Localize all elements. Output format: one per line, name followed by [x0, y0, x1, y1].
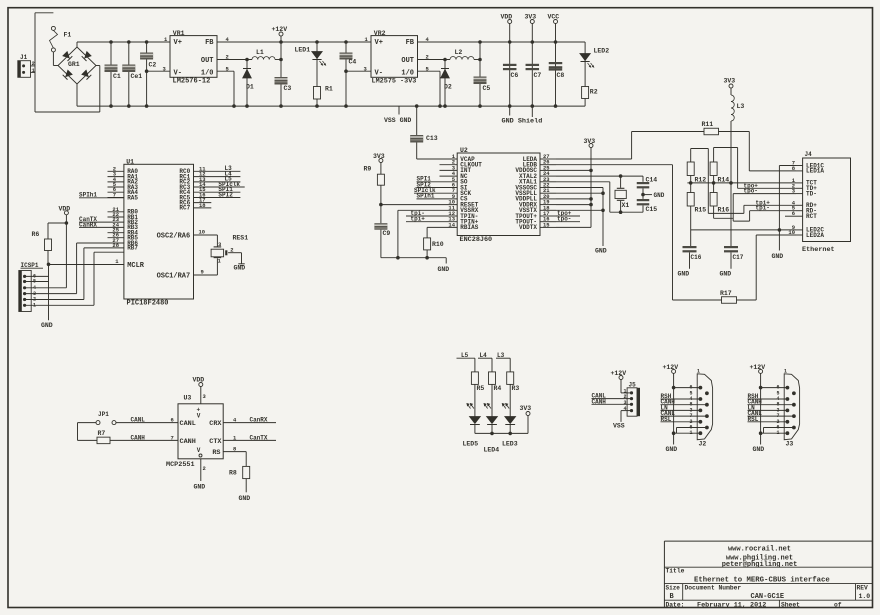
svg-text:GND: GND	[753, 446, 765, 453]
net label tpo+ at J4	[738, 182, 796, 189]
svg-text:C1: C1	[113, 73, 121, 80]
resistor R6	[32, 223, 67, 264]
power node VDD	[501, 14, 513, 106]
svg-text:LED1A: LED1A	[806, 168, 824, 175]
wire J4 LED1C to gnd	[779, 166, 796, 251]
resistor R4	[489, 372, 502, 417]
net label CANL at J2	[661, 410, 707, 417]
svg-text:C4: C4	[349, 59, 357, 66]
svg-text:GND: GND	[239, 495, 251, 502]
wire R9 to RESET	[379, 185, 457, 223]
svg-text:Ce1: Ce1	[131, 73, 143, 80]
net label CANH at J2	[661, 399, 707, 406]
net label SPIh1 at U1	[79, 192, 124, 199]
svg-text:RBIAS: RBIAS	[460, 224, 478, 231]
svg-text:R11: R11	[702, 121, 714, 128]
svg-text:CANH: CANH	[131, 434, 146, 441]
net label L3 wire	[496, 352, 510, 372]
net label tpo- at J4	[733, 188, 796, 195]
capacitor C13	[410, 106, 457, 159]
inductor L2	[450, 49, 474, 60]
svg-text:V: V	[197, 413, 201, 420]
power node 3V3 at LEDs	[520, 405, 532, 416]
wire J5 pin4 to VSS	[613, 411, 632, 430]
svg-text:www.rocrail.net: www.rocrail.net	[728, 546, 791, 554]
svg-text:J1: J1	[20, 54, 28, 61]
net label CanTX at U3	[223, 434, 276, 441]
power node 3V3 at R9	[373, 153, 385, 174]
svg-text:2: 2	[203, 465, 206, 472]
resistor R14	[710, 148, 729, 193]
connector ICSP1	[19, 262, 43, 312]
svg-text:2: 2	[226, 54, 229, 61]
capacitor C7	[526, 64, 542, 79]
wire +12V to J2 pin	[672, 386, 701, 390]
svg-text:C14: C14	[646, 177, 658, 184]
ground at RES1	[234, 264, 246, 272]
capacitor C16	[678, 246, 702, 278]
capacitor C14	[637, 176, 658, 188]
svg-text:10: 10	[199, 229, 206, 236]
svg-text:J2: J2	[699, 441, 707, 448]
svg-text:R12: R12	[695, 177, 707, 184]
svg-text:RS: RS	[212, 449, 220, 457]
svg-text:VSS GND: VSS GND	[384, 117, 411, 124]
svg-text:4: 4	[624, 406, 627, 412]
wire input loop	[35, 13, 100, 112]
net label tpi+ at U2	[406, 216, 457, 223]
wire ICSP1 pin4 to VDD	[25, 215, 67, 288]
wire TCT center tap line	[687, 181, 796, 185]
svg-text:R16: R16	[718, 207, 730, 214]
svg-text:LM2576-12: LM2576-12	[173, 78, 211, 86]
svg-text:OSC2/RA6: OSC2/RA6	[157, 232, 191, 240]
svg-text:CanRX: CanRX	[250, 417, 268, 424]
svg-text:CTX: CTX	[209, 438, 222, 446]
power node +12V at J2	[663, 364, 679, 433]
svg-text:V+: V+	[174, 39, 182, 47]
net label RSH at J3	[748, 393, 788, 400]
ground at J4 LEDs	[772, 253, 784, 260]
U1 RA pin stubs	[108, 165, 124, 198]
net label CANL at J5	[592, 393, 632, 400]
svg-text:1.0: 1.0	[859, 593, 871, 600]
svg-text:R2: R2	[590, 89, 598, 96]
IC U3 MCP2551	[166, 394, 223, 469]
IC U2 ENC28J60	[457, 147, 540, 244]
svg-text:REV: REV	[857, 585, 869, 592]
svg-text:OUT: OUT	[201, 57, 214, 65]
ground wire under U2	[381, 256, 449, 273]
junction dots ICSP area	[47, 221, 68, 266]
net label SPI2 at U2	[417, 181, 458, 188]
wire J1 pins to loop	[31, 66, 36, 73]
U2 left pin stubs	[440, 153, 458, 228]
net label L4 wire	[478, 352, 492, 372]
wire LEDA to R11	[556, 132, 704, 160]
wire VR2 FB to 3V3 rail	[418, 36, 586, 43]
svg-text:R3: R3	[512, 385, 520, 392]
power 3V3 vertical at U2 right	[556, 138, 595, 227]
svg-text:VDD: VDD	[193, 377, 205, 384]
svg-text:GND: GND	[438, 266, 450, 273]
svg-text:MCLR: MCLR	[127, 262, 145, 270]
svg-text:X1: X1	[622, 202, 630, 209]
svg-text:F1: F1	[64, 32, 72, 39]
resistor R11	[702, 121, 719, 135]
net label tpi- at J4	[750, 205, 796, 212]
svg-text:MCP2551: MCP2551	[166, 461, 195, 469]
capacitor C15	[637, 199, 658, 213]
svg-text:VDDTX: VDDTX	[519, 224, 537, 231]
svg-text:GND: GND	[595, 248, 607, 255]
svg-text:R1: R1	[325, 86, 333, 93]
power node +12V	[272, 26, 288, 60]
net label RSL at J2	[661, 416, 701, 423]
jumper JP1	[96, 411, 116, 425]
capacitor C2	[140, 42, 156, 106]
svg-text:OSC1/RA7: OSC1/RA7	[157, 272, 191, 280]
capacitor C17	[720, 246, 744, 278]
svg-text:Sheet: Sheet	[781, 601, 800, 608]
wire J4 RCT stub	[785, 215, 796, 217]
svg-text:C16: C16	[691, 254, 702, 261]
ground wires at J2	[666, 428, 707, 454]
svg-text:L2: L2	[455, 49, 463, 56]
svg-text:U3: U3	[184, 394, 192, 401]
svg-text:R15: R15	[695, 207, 707, 214]
svg-text:C9: C9	[383, 230, 391, 237]
capacitor C9	[374, 223, 390, 258]
wire OSC2 pin 10	[194, 229, 218, 247]
svg-text:LM2575 -3V3: LM2575 -3V3	[372, 78, 417, 86]
svg-text:R14: R14	[718, 177, 730, 184]
svg-text:CANL: CANL	[180, 420, 196, 428]
svg-text:CRX: CRX	[209, 420, 222, 428]
svg-text:2: 2	[426, 54, 429, 61]
svg-text:1: 1	[115, 258, 119, 265]
svg-text:VR2: VR2	[374, 30, 386, 37]
wire ICSP1 pin2 to RB7	[25, 248, 124, 300]
connector J1	[18, 54, 36, 77]
wire VR1 OUT	[217, 54, 252, 61]
svg-text:LED2: LED2	[594, 48, 610, 55]
power node 3V3	[525, 14, 537, 117]
svg-text:GND Shield: GND Shield	[502, 118, 543, 126]
junction dots power rails	[109, 40, 557, 108]
wire VR2 V- pin 3	[346, 65, 371, 72]
U2 right pin stubs	[540, 153, 556, 228]
svg-text:SPI2: SPI2	[218, 191, 233, 198]
svg-text:1/0: 1/0	[201, 70, 214, 78]
inductor L1	[252, 49, 275, 60]
wire F1 to bridge	[53, 52, 58, 66]
diode D1	[243, 60, 254, 107]
resistor R1	[313, 86, 333, 100]
inductor L3	[731, 95, 744, 121]
capacitor C5	[474, 42, 491, 106]
svg-text:U1: U1	[126, 159, 134, 166]
svg-text:FB: FB	[406, 39, 415, 47]
svg-text:+12V: +12V	[663, 364, 679, 371]
wire R17 to J4 LED2A	[737, 235, 797, 300]
resistor R9	[364, 166, 385, 186]
svg-text:FB: FB	[205, 39, 214, 47]
net label L5 wire	[457, 352, 475, 372]
resistor R10	[424, 227, 458, 257]
wire R12 termination to tpi+	[691, 149, 744, 214]
svg-text:VCC: VCC	[548, 14, 560, 21]
capacitor C4	[340, 42, 357, 106]
svg-text:U2: U2	[460, 147, 468, 154]
svg-text:peter@phgiling.net: peter@phgiling.net	[722, 561, 798, 569]
svg-text:RA5: RA5	[127, 194, 138, 201]
svg-text:VDD: VDD	[59, 205, 71, 212]
LED LED3	[502, 404, 515, 434]
wire RS pin 8 to R8	[223, 446, 246, 467]
svg-text:OUT: OUT	[401, 57, 414, 65]
net label SPIh1 at U2	[417, 193, 458, 200]
net label SPI1 at U2	[417, 176, 458, 183]
connector J3 DB9	[776, 369, 799, 448]
wire OSC1 pin 9	[194, 258, 218, 275]
wire L3 to TCT line and C17	[729, 121, 733, 247]
crystal X1	[615, 176, 629, 212]
svg-text:7: 7	[171, 434, 174, 441]
resistor R8	[229, 466, 250, 478]
svg-text:9: 9	[201, 269, 204, 276]
net label RSL at J3	[748, 416, 788, 423]
svg-text:GND: GND	[41, 322, 53, 329]
wire JP1 to CANL	[116, 417, 178, 424]
wire L1 to +12V node	[275, 59, 281, 61]
svg-text:D1: D1	[246, 84, 254, 91]
svg-text:V-: V-	[174, 70, 182, 78]
label LED3	[502, 441, 518, 448]
LED LED5	[467, 404, 480, 434]
wire ICSP1 pin1	[25, 252, 124, 305]
wire +12V to J3 pin	[759, 386, 788, 390]
net VSS GND stub	[384, 106, 411, 124]
wire L2 to 3V3 node	[474, 59, 480, 61]
svg-text:1: 1	[218, 258, 222, 265]
svg-text:V+: V+	[375, 39, 383, 47]
svg-text:C2: C2	[149, 62, 157, 69]
net label CANH at J3	[748, 399, 794, 406]
svg-text:R9: R9	[364, 166, 372, 173]
svg-text:V-: V-	[375, 70, 383, 78]
resistor R3	[507, 372, 520, 417]
svg-text:3V3: 3V3	[373, 153, 385, 160]
resistor R12	[687, 149, 706, 193]
svg-text:C17: C17	[733, 254, 744, 261]
svg-text:C15: C15	[646, 206, 658, 213]
power node +12V at J5	[611, 370, 632, 393]
svg-text:February 11, 2012: February 11, 2012	[697, 601, 766, 609]
power node VCC	[548, 14, 560, 106]
svg-text:VSS: VSS	[613, 423, 625, 430]
regulator VR1 LM2576-12	[164, 30, 217, 86]
connector J5	[624, 382, 641, 417]
svg-text:GND: GND	[678, 271, 690, 278]
net GND Shield	[502, 106, 543, 125]
wire VR1 V- pin 3	[147, 65, 170, 72]
ground wires at J3	[753, 428, 794, 454]
ground at U3	[194, 459, 206, 491]
wire +V rail (bridge to VR1)	[77, 41, 170, 43]
svg-text:GND: GND	[654, 192, 665, 199]
svg-text:3V3: 3V3	[525, 14, 537, 21]
svg-text:RES1: RES1	[233, 235, 249, 242]
wire bridge bottom to ground rail	[76, 84, 78, 106]
svg-text:LED1: LED1	[295, 47, 311, 54]
power node 3V3 at L3	[724, 78, 736, 96]
wire VR2 1/0 to ground	[418, 65, 441, 106]
wire ICSP1 pin3 to RB6	[25, 243, 124, 294]
svg-text:CanTX: CanTX	[250, 434, 268, 441]
svg-text:R6: R6	[32, 231, 40, 238]
svg-text:RC7: RC7	[179, 205, 190, 212]
connector J2 DB9	[689, 369, 712, 448]
wire LED cathode rail to 3V3	[475, 416, 528, 436]
svg-text:D2: D2	[444, 84, 452, 91]
svg-text:LED5: LED5	[463, 441, 479, 448]
svg-text:3V3: 3V3	[520, 405, 532, 412]
label LED5	[463, 441, 479, 448]
svg-text:LED2A: LED2A	[806, 232, 824, 239]
svg-text:C5: C5	[483, 85, 491, 92]
connector J4 Ethernet	[788, 151, 850, 254]
svg-text:CANH: CANH	[180, 438, 196, 446]
svg-text:+12V: +12V	[272, 26, 288, 33]
ground at R8	[239, 479, 251, 502]
svg-text:Date:: Date:	[666, 601, 685, 608]
net label CanRX at U3	[223, 417, 276, 424]
svg-text:VR1: VR1	[173, 30, 185, 37]
ground at ICSP1	[41, 264, 53, 329]
label LED4	[484, 447, 500, 454]
svg-text:LED3: LED3	[502, 441, 518, 448]
svg-text:C13: C13	[426, 135, 438, 142]
svg-text:GR1: GR1	[68, 61, 80, 68]
svg-text:R7: R7	[98, 430, 106, 437]
resistor R7	[97, 430, 110, 444]
svg-text:PIC18F2480: PIC18F2480	[127, 300, 169, 308]
svg-text:JP1: JP1	[98, 411, 109, 418]
capacitor Ce1	[122, 42, 142, 106]
svg-text:6: 6	[792, 210, 795, 217]
svg-text:C8: C8	[557, 72, 565, 79]
svg-text:GND: GND	[720, 271, 732, 278]
diode D2	[441, 60, 452, 107]
wire MCLR	[49, 258, 124, 265]
ground rail	[77, 105, 585, 107]
svg-text:RCT: RCT	[806, 213, 817, 220]
net label LN at J2	[661, 404, 701, 411]
capacitor C3	[275, 60, 292, 107]
svg-text:1/0: 1/0	[401, 70, 414, 78]
wire bridge top to +V rail	[76, 42, 78, 47]
wire J4 LED2C gnd line	[691, 228, 796, 232]
net label tpi+ at J4	[744, 199, 796, 206]
resistor R16	[710, 193, 733, 219]
svg-text:J3: J3	[786, 441, 794, 448]
LED LED2	[580, 42, 609, 106]
gnd tag between C14 C15	[641, 189, 665, 199]
svg-text:ENC28J60: ENC28J60	[460, 236, 493, 244]
svg-text:Document Number: Document Number	[685, 585, 742, 592]
ground vertical at U2 right	[556, 188, 607, 255]
svg-text:1: 1	[784, 369, 787, 375]
net label RSH at J2	[661, 393, 701, 400]
svg-text:6: 6	[171, 417, 174, 424]
U1 RB pin stubs	[108, 206, 124, 249]
wire R14 termination to tpi-	[714, 148, 750, 222]
wire VR2 OUT	[418, 54, 451, 61]
svg-text:R4: R4	[494, 385, 502, 392]
LED LED4	[484, 404, 497, 434]
svg-text:R17: R17	[720, 290, 732, 297]
net label LN at J3	[748, 404, 788, 411]
svg-text:of: of	[834, 601, 842, 608]
svg-text:CANL: CANL	[131, 417, 146, 424]
wire VSSRX to gnd	[398, 210, 457, 257]
svg-text:+12V: +12V	[750, 364, 766, 371]
svg-text:GND: GND	[234, 265, 246, 272]
net label CanRX at U1	[79, 222, 124, 229]
svg-text:3: 3	[218, 241, 222, 248]
svg-text:C7: C7	[534, 72, 542, 79]
svg-text:TD-: TD-	[806, 190, 817, 197]
capacitor C8	[549, 62, 565, 79]
resistor R2	[582, 87, 598, 99]
wire RES1 pin2 to gnd	[228, 253, 241, 264]
svg-text:C3: C3	[284, 85, 292, 92]
svg-text:3: 3	[203, 393, 207, 400]
IC U1 PIC18F2480	[124, 159, 194, 308]
net label tpo+ at U2	[556, 210, 580, 217]
capacitor C6	[503, 64, 518, 79]
svg-text:R5: R5	[477, 385, 485, 392]
svg-text:R8: R8	[229, 469, 237, 476]
wire R7 to CANH	[110, 434, 178, 441]
LED LED1	[295, 42, 326, 106]
wire XTAL2	[556, 174, 643, 178]
power node VDD at U3	[193, 377, 207, 404]
resonator RES1	[211, 235, 248, 265]
wire XTAL1	[556, 182, 643, 214]
svg-text:GND: GND	[772, 253, 784, 260]
regulator VR2 LM2575-3V3	[365, 30, 418, 86]
wire ICSP1 pin5	[25, 281, 49, 283]
svg-text:Ethernet: Ethernet	[802, 246, 835, 254]
resistor R5	[471, 372, 484, 417]
wire LEDB to R17	[556, 165, 722, 300]
svg-text:C6: C6	[511, 72, 519, 79]
svg-text:3V3: 3V3	[724, 78, 736, 85]
title block	[664, 541, 872, 609]
net label tpo- at U2	[556, 216, 580, 223]
U1 RC pin stubs with net labels	[194, 165, 245, 209]
svg-text:J4: J4	[805, 151, 813, 158]
power node VDD at R6	[59, 205, 71, 215]
net label CanTX at U1	[79, 216, 124, 223]
svg-text:Title: Title	[666, 568, 685, 575]
bridge rectifier GR1	[58, 47, 96, 84]
net label CANL at J3	[748, 410, 794, 417]
power node +12V at J3	[750, 364, 766, 433]
wire VR1 1/0 to ground	[217, 65, 234, 106]
